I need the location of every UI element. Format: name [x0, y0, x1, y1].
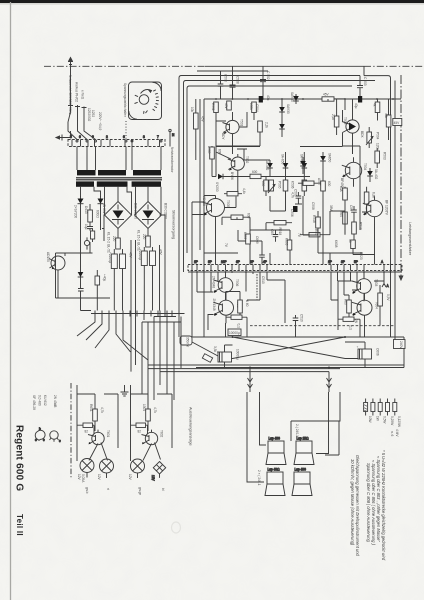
note line 2 [376, 456, 381, 542]
resistor R501 [211, 102, 218, 121]
svg-text:0A-650: 0A-650 [281, 154, 285, 165]
resistor R602 [77, 423, 94, 434]
svg-text:9P: 9P [208, 260, 212, 264]
wire bridge1 bottom [117, 229, 119, 243]
resistor A505 [207, 146, 222, 177]
svg-text:C510: C510 [300, 314, 304, 322]
diode D602 SY200 [98, 196, 104, 208]
wire T503 row [318, 99, 360, 154]
svg-text:220V~ +04,9: 220V~ +04,9 [98, 112, 102, 130]
label 2x240 [257, 470, 261, 486]
svg-text:6: 6 [123, 135, 125, 139]
zener column dashes [257, 274, 265, 300]
resistor R505 [224, 101, 231, 110]
box 45V label [393, 119, 402, 126]
wires into bottom rails from psu [131, 311, 181, 406]
extra labels row [224, 202, 363, 260]
svg-text:0A650: 0A650 [328, 153, 332, 162]
transformer terminal strip (dashed box) [68, 135, 165, 147]
bus below strip [188, 271, 402, 273]
resistor R515 horizontal [224, 188, 246, 196]
svg-text:2N 4348: 2N 4348 [212, 276, 216, 288]
svg-text:1252/002: 1252/002 [87, 108, 91, 122]
svg-text:6: 6 [79, 135, 81, 139]
svg-text:0,05A: 0,05A [81, 474, 85, 483]
svg-text:K536: K536 [291, 181, 295, 189]
resistor R536 [283, 177, 294, 199]
transistor pinout symbol 1 [35, 427, 45, 442]
diode D502 [279, 120, 285, 137]
svg-text:n. 6: n. 6 [390, 431, 394, 437]
capacitor C509 mid [293, 314, 304, 337]
svg-text:R601: R601 [89, 404, 93, 412]
resistor R530 [339, 211, 347, 234]
svg-text:C510: C510 [261, 276, 265, 284]
svg-text:B30 C3200: B30 C3200 [164, 203, 168, 219]
capacitor C501 [218, 71, 228, 99]
svg-text:12V: 12V [151, 475, 155, 482]
svg-text:7: 7 [157, 135, 159, 139]
note line 6 [350, 459, 355, 546]
svg-text:A505: A505 [207, 146, 211, 154]
transistor T506 output [212, 272, 240, 300]
capacitor C504 (dark) [255, 95, 270, 112]
title Regent 600 G [14, 425, 25, 491]
resistor R603 [142, 394, 157, 431]
speaker feed arrows right [327, 372, 332, 392]
svg-text:0,5W: 0,5W [383, 416, 387, 423]
svg-text:C505: C505 [294, 189, 298, 197]
terminal pins left group [194, 260, 267, 271]
svg-text:SAY30: SAY30 [286, 104, 290, 114]
svg-text:BDY: BDY [221, 133, 225, 140]
svg-text:4k: 4k [373, 103, 377, 107]
svg-text:A60: A60 [344, 299, 348, 305]
transistor T502 [228, 154, 249, 180]
transistor pinout symbol 2 [50, 431, 62, 443]
svg-text:9,0 480: 9,0 480 [38, 395, 42, 406]
transistor T508 driver right [363, 196, 389, 224]
wire bottom regulator [56, 253, 111, 298]
speaker wiring [247, 392, 340, 482]
wires left mid [192, 99, 290, 337]
mains dash-dot boundary line [44, 65, 424, 67]
label Netztransformator [170, 147, 174, 173]
svg-text:Spannung über C 808 | ohne Aus: Spannung über C 808 | ohne Aussteuerung [366, 463, 371, 542]
svg-text:Spannungswahlschalter: Spannungswahlschalter [123, 83, 127, 118]
svg-text:BDX: BDX [360, 131, 364, 138]
capacitor C520 [349, 205, 357, 218]
label Spannungswahlschalter [123, 83, 127, 118]
resistor R535 0.47 horizontal [226, 315, 247, 328]
diode D508 [300, 157, 306, 174]
svg-text:T601: T601 [106, 430, 110, 437]
note line 5 [355, 455, 360, 557]
loudspeaker Lsp1 [266, 437, 286, 465]
svg-text:rt: rt [106, 488, 110, 490]
svg-text:gn-b: gn-b [85, 487, 89, 494]
svg-text:6P: 6P [236, 260, 240, 264]
wires right mid [318, 146, 375, 265]
transformer secondary windings (solid bars) [76, 181, 161, 186]
svg-text:40k: 40k [384, 113, 388, 119]
svg-text:12V: 12V [97, 474, 101, 481]
lamp La1 [77, 459, 94, 484]
transistor T602 [142, 430, 164, 461]
svg-text:45V: 45V [323, 93, 330, 97]
diode SAY30 right of bus [290, 92, 299, 104]
resistor R504 100k [249, 102, 256, 120]
resistor R523 [331, 99, 339, 135]
capacitor 10u [84, 224, 93, 231]
svg-text:1P: 1P [194, 260, 198, 264]
transistor T507 output [212, 292, 240, 323]
label Gl601 [102, 203, 138, 219]
resistor R533 [312, 211, 320, 235]
label box 10000u [228, 329, 241, 336]
svg-text:Lsp 15Ω: Lsp 15Ω [297, 437, 310, 441]
resistor P60 box [378, 285, 390, 316]
transistor T604 output [352, 293, 379, 323]
resistor R503 [375, 148, 387, 168]
svg-text:KL 15-2 GL-51: KL 15-2 GL-51 [137, 230, 141, 251]
transistor T501 [221, 112, 244, 154]
extra capacitor C512b [259, 253, 265, 265]
label box 240V right [394, 340, 406, 350]
svg-text:C50: C50 [349, 205, 353, 211]
svg-text:e: e [35, 438, 37, 442]
label Netzanschluss 220V [68, 75, 85, 115]
svg-text:12V: 12V [128, 474, 132, 481]
capacitor C606 [270, 229, 278, 242]
svg-text:An/Aus PH/02: An/Aus PH/02 [75, 82, 79, 102]
transformer core [76, 177, 162, 180]
svg-text:1304: 1304 [142, 404, 146, 411]
svg-text:P505: P505 [278, 181, 282, 189]
svg-text:C606: C606 [376, 348, 380, 356]
svg-text:60A: 60A [339, 186, 343, 193]
svg-text:K608: K608 [334, 240, 338, 248]
svg-text:3: 3 [143, 135, 145, 139]
wire T501 row [216, 112, 260, 149]
transistor T503 [342, 99, 364, 154]
svg-text:Lsp 40Ω: Lsp 40Ω [268, 468, 281, 472]
dots bottom [232, 336, 347, 369]
resistor R528 [339, 186, 347, 211]
long bottom wires to speakers [148, 365, 404, 372]
resistor R519 [352, 218, 363, 244]
svg-text:40V: 40V [129, 252, 133, 259]
wire 350mV probe diagonal [192, 342, 218, 356]
wire sub-bus y71 [197, 70, 268, 72]
label Aussteuerungsanzeige [189, 407, 193, 446]
resistor R537 [302, 177, 313, 197]
svg-text:C503: C503 [224, 74, 228, 82]
transistor data text block [32, 395, 57, 410]
capacitor C506 [290, 204, 302, 217]
crossover wires [219, 337, 360, 359]
extra interconnect wires mid amp [204, 147, 345, 265]
svg-text:KL 15-2 GL-51: KL 15-2 GL-51 [107, 232, 111, 253]
diode D504 [265, 160, 273, 177]
bottom rails [192, 326, 404, 368]
label K small top right [390, 429, 399, 437]
amp terminal strip (dashed) [188, 265, 402, 271]
lamp La2 [97, 459, 114, 481]
svg-text:4P: 4P [263, 260, 267, 264]
svg-text:350mV: 350mV [186, 337, 190, 348]
resistor R604b [131, 423, 148, 434]
wire corner bottom right of speakers [325, 421, 339, 455]
svg-text:BY56: BY56 [230, 172, 234, 180]
svg-text:0A-402: 0A-402 [265, 160, 269, 171]
ground symbol [121, 385, 129, 396]
wires output right [338, 272, 384, 337]
label switch codes [87, 108, 102, 130]
svg-text:K609: K609 [243, 232, 247, 240]
transistor T401 regulator [46, 252, 65, 275]
capacitor C602 2200u (electrolytic pair) [138, 247, 163, 272]
svg-text:Lsp 400: Lsp 400 [269, 437, 281, 441]
svg-text:C 503: C 503 [363, 77, 367, 86]
svg-text:AD150: AD150 [46, 252, 50, 262]
svg-text:40: 40 [348, 239, 352, 243]
resistor R521 45V [190, 99, 205, 160]
svg-text:4,7k: 4,7k [100, 407, 104, 413]
svg-text:2N 4348: 2N 4348 [212, 299, 216, 311]
svg-text:C609: C609 [255, 236, 259, 244]
lamp/thermistor circle [84, 237, 89, 249]
svg-text:R518: R518 [312, 215, 316, 223]
svg-text:10 kOhm/V, gegen Masse (ohne A: 10 kOhm/V, gegen Masse (ohne Aussteuerun… [350, 459, 355, 546]
svg-text:4,7k: 4,7k [153, 407, 157, 413]
svg-text:+: + [355, 346, 359, 348]
svg-text:82: 82 [138, 430, 142, 434]
label 2-L240 [295, 424, 299, 437]
svg-text:45V: 45V [394, 121, 401, 125]
svg-text:100k: 100k [249, 103, 253, 110]
svg-text:2-( 240-1: 2-( 240-1 [295, 424, 299, 437]
note line 1 [381, 450, 386, 561]
capacitor C402 [78, 282, 84, 298]
svg-text:45V: 45V [224, 103, 228, 110]
capacitor C601 2200u (electrolytic pair) [108, 249, 133, 275]
svg-text:0,25W: 0,25W [390, 416, 394, 425]
svg-text:T501: T501 [240, 119, 244, 126]
transistor T505 driver [202, 196, 230, 225]
svg-text:2,2k: 2,2k [265, 122, 269, 128]
regulator wires left [56, 208, 101, 268]
resistor R532 small [348, 239, 355, 255]
extra resistor R542 [285, 238, 292, 250]
svg-text:Regent 600 G: Regent 600 G [14, 425, 25, 491]
svg-text:12V: 12V [77, 474, 81, 481]
svg-text:600: 600 [327, 181, 331, 187]
svg-text:10k: 10k [190, 107, 194, 113]
svg-text:2: 2 [106, 135, 108, 139]
resistor R608 on diagonal [202, 346, 217, 362]
svg-text:1W: 1W [375, 416, 379, 421]
svg-text:10µ: 10µ [84, 224, 88, 230]
transformer Tr601 primary windings (solid bars) [77, 170, 161, 175]
legend resistor 0.5W [378, 399, 386, 424]
svg-text:0,125W: 0,125W [397, 416, 401, 427]
svg-text:40µ: 40µ [266, 95, 270, 101]
svg-text:0,5V: 0,5V [386, 294, 390, 301]
loudspeaker Lsp2 [294, 437, 314, 465]
resistor R516b horizontal [222, 213, 251, 219]
resistor R527 [321, 181, 331, 191]
svg-text:+2200µ: +2200µ [108, 252, 112, 263]
arrow A right [382, 281, 390, 288]
speaker feed arrows left [248, 368, 253, 393]
svg-text:600: 600 [261, 181, 265, 187]
svg-text:40µ: 40µ [354, 103, 358, 109]
mains plug symbol [68, 58, 73, 67]
svg-text:9: 9 [92, 135, 94, 139]
wire T505 region [192, 196, 236, 215]
resistor R534 [238, 292, 249, 318]
svg-text:5P: 5P [354, 260, 358, 264]
indicator frame left [77, 385, 118, 461]
svg-text:0,1: 0,1 [237, 324, 241, 329]
top bus +rail [205, 66, 391, 330]
svg-text:2N 43dB: 2N 43dB [53, 395, 57, 407]
svg-text:R60: R60 [339, 211, 343, 217]
svg-text:10P: 10P [221, 260, 227, 264]
label Leistungsverstaerker [408, 222, 412, 256]
svg-text:Lsp 400: Lsp 400 [295, 468, 307, 472]
svg-text:Leistungsverstärker: Leistungsverstärker [408, 222, 412, 256]
resistor R536b left of T604 [344, 295, 352, 318]
svg-text:240V: 240V [399, 341, 403, 349]
diode D501 [279, 99, 290, 120]
svg-text:2,2k: 2,2k [331, 114, 335, 120]
svg-text:2×SY200: 2×SY200 [74, 205, 78, 218]
bridge rectifier Gl602 [135, 202, 162, 229]
resistor R525 [373, 99, 380, 121]
svg-text:R50: R50 [314, 229, 318, 235]
capacitor C503 [357, 76, 367, 99]
svg-text:Teil II: Teil II [15, 514, 24, 536]
PSU terminal row [91, 311, 185, 317]
trimmer P505 [268, 180, 282, 193]
svg-text:C508: C508 [236, 76, 240, 84]
resistor R522 horizontal [322, 93, 334, 102]
wire bridge2 bottom [147, 229, 149, 239]
resistor R516 horizontal [250, 170, 261, 179]
supply rail B [184, 81, 396, 331]
svg-text:R519: R519 [359, 222, 363, 230]
loudspeaker Lsp4 [292, 468, 312, 496]
svg-text:P504: P504 [376, 132, 380, 140]
svg-text:Aussteuerungsanzeige: Aussteuerungsanzeige [189, 407, 193, 446]
secondary tap wires [81, 187, 162, 215]
resistor R531 horizontal [300, 229, 330, 237]
legend resistor 0.125W [393, 399, 401, 428]
voltage selector switch box [129, 82, 162, 120]
resistor R517 horizontal [298, 178, 322, 186]
transistor T601 [88, 430, 110, 461]
extra resistor R541 [243, 232, 250, 244]
svg-text:gn-ge: gn-ge [138, 487, 142, 495]
wire mid row [216, 149, 270, 160]
svg-text:R501: R501 [211, 103, 215, 111]
diode D509 [320, 152, 331, 169]
supply rail C [187, 86, 352, 253]
indicator frame right [131, 385, 173, 461]
svg-text:3P: 3P [341, 260, 345, 264]
svg-text:SAY30: SAY30 [290, 92, 294, 102]
resistor R605 220 [142, 234, 150, 247]
diode D601 SY200 [78, 196, 84, 208]
label Gl602 [164, 203, 168, 219]
svg-text:T602: T602 [160, 430, 164, 437]
resistor R406 600 1W [88, 204, 100, 225]
resistor 0.1 horizontal right [338, 317, 360, 330]
wire row 176 [229, 177, 310, 194]
wires caps to rails [225, 342, 366, 368]
diode D503 [212, 174, 229, 192]
terminal pins right group [328, 260, 391, 271]
svg-text:R520: R520 [359, 252, 363, 260]
svg-text:10000µ: 10000µ [236, 349, 240, 360]
svg-text:T603: T603 [374, 279, 378, 286]
fan wires psu to indicator [77, 311, 148, 361]
svg-text:0A-402: 0A-402 [374, 169, 378, 180]
svg-text:R503: R503 [383, 152, 387, 160]
output coupling capacitor C511 [215, 349, 240, 362]
resistor R502 2.2k [258, 121, 269, 146]
note line 3 [371, 460, 376, 546]
diode D505 [281, 152, 289, 177]
capacitor C403 [95, 270, 107, 293]
capacitor C508 [230, 66, 240, 99]
transistor T504 [340, 157, 367, 187]
resistor R604 220 [112, 236, 120, 249]
title Teil II [15, 514, 24, 536]
svg-text:T504: T504 [363, 163, 367, 170]
svg-text:82: 82 [85, 430, 89, 434]
svg-text:10000µ: 10000µ [229, 331, 240, 335]
svg-text:Gl 601: Gl 601 [102, 204, 106, 214]
output coupling capacitor C512 [355, 346, 380, 359]
svg-text:Netzanschl. 220/380V 50Hz: Netzanschl. 220/380V 50Hz [68, 75, 72, 115]
resistor R508 40k [384, 99, 391, 140]
zener diode BZ [78, 268, 84, 282]
label 2x SY200 [74, 205, 89, 218]
neutral terminal feed [169, 129, 175, 146]
wires caps to terminal row [81, 215, 166, 311]
svg-text:1P: 1P [328, 260, 332, 264]
wires terminal strip to primary [77, 147, 161, 171]
svg-text:T506: T506 [235, 279, 239, 286]
wires output left [197, 272, 247, 337]
label Stromversorgung [172, 210, 176, 239]
svg-text:38V: 38V [329, 205, 333, 212]
legend resistor 0.25W [386, 399, 394, 426]
svg-text:A 60: A 60 [245, 300, 249, 307]
capacitor C505 [294, 189, 302, 204]
mains switch S1 contacts [56, 66, 96, 140]
bridge rectifier Gl601 [105, 202, 132, 229]
svg-text:SY200: SY200 [215, 182, 219, 192]
label KL15-2 [107, 230, 141, 253]
svg-text:+40µ: +40µ [103, 274, 107, 281]
diode D506 [300, 152, 308, 177]
resistor R529 6.8k [364, 187, 375, 212]
svg-text:T503: T503 [343, 117, 347, 124]
